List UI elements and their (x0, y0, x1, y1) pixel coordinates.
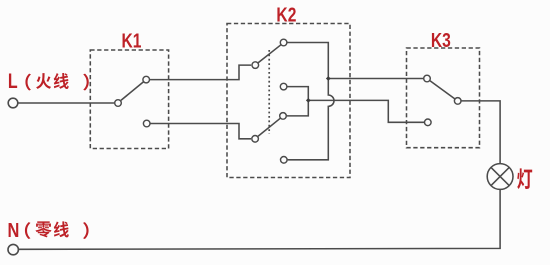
svg-text:K3: K3 (431, 29, 451, 51)
svg-text:K2: K2 (276, 4, 296, 26)
svg-text:L: L (8, 70, 18, 94)
svg-text:N: N (8, 218, 20, 241)
svg-text:K1: K1 (122, 30, 142, 52)
